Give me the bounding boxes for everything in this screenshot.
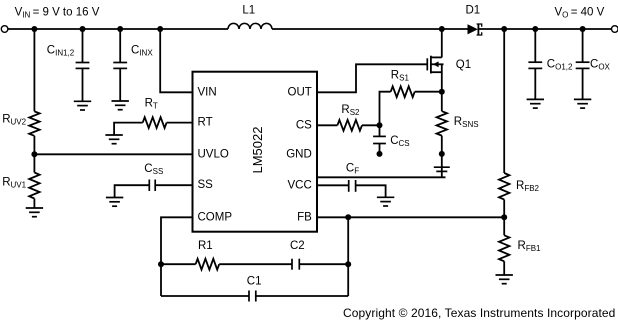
svg-text:Copyright © 2016, Texas Instru: Copyright © 2016, Texas Instruments Inco… xyxy=(343,306,615,320)
svg-text:FB: FB xyxy=(297,211,312,223)
svg-text:CS: CS xyxy=(296,119,312,131)
svg-text:C2: C2 xyxy=(290,240,305,252)
svg-text:SS: SS xyxy=(198,179,214,191)
svg-text:VO = 40 V: VO = 40 V xyxy=(555,7,605,20)
svg-text:D1: D1 xyxy=(466,4,481,16)
svg-text:Q1: Q1 xyxy=(456,59,471,71)
svg-text:R1: R1 xyxy=(198,240,213,252)
svg-text:OUT: OUT xyxy=(288,86,312,98)
svg-text:VIN: VIN xyxy=(198,86,217,98)
svg-text:VCC: VCC xyxy=(288,179,312,191)
svg-text:L1: L1 xyxy=(242,4,255,16)
svg-text:UVLO: UVLO xyxy=(198,149,229,161)
svg-text:GND: GND xyxy=(286,149,312,161)
svg-text:C1: C1 xyxy=(247,276,262,288)
svg-text:RT: RT xyxy=(198,117,213,129)
svg-text:COMP: COMP xyxy=(198,211,233,223)
svg-text:LM5022: LM5022 xyxy=(250,127,265,174)
